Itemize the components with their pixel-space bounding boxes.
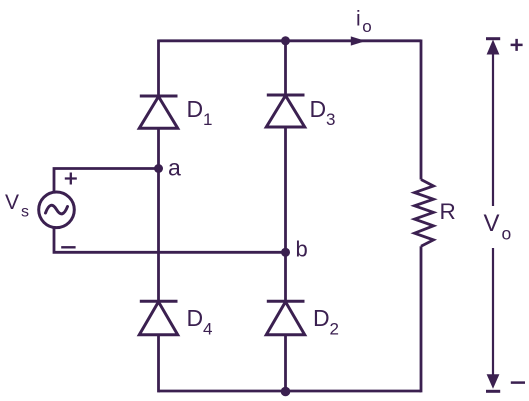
- wire left branch lower (D4 to bottom rail): [157, 335, 160, 393]
- node bottom junction: [281, 387, 291, 397]
- svg-text:D: D: [187, 305, 204, 331]
- Vo minus sign: [511, 381, 525, 384]
- wire middle branch lower (D2 to bottom rail): [284, 335, 287, 391]
- diode D2 triangle: [266, 302, 304, 335]
- Vo arrow bottom bar: [486, 390, 500, 393]
- source minus sign: [61, 246, 75, 248]
- svg-text:3: 3: [326, 110, 335, 129]
- current arrow io: [351, 36, 366, 45]
- wire left branch middle (D1 to D4 through node a): [157, 128, 160, 301]
- wire top rail: [159, 39, 422, 42]
- svg-text:D: D: [187, 96, 204, 122]
- wire source top to node a: [54, 169, 159, 193]
- source Vs circle: [39, 192, 75, 228]
- svg-text:V: V: [484, 210, 500, 237]
- svg-text:o: o: [362, 17, 371, 36]
- resistor R zigzag: [415, 180, 434, 247]
- svg-text:b: b: [296, 237, 308, 262]
- diode D3 triangle: [266, 96, 304, 128]
- svg-text:2: 2: [330, 320, 339, 339]
- Vo plus sign: [511, 39, 523, 51]
- Vo arrow bottom head: [487, 374, 500, 389]
- svg-text:o: o: [502, 224, 512, 244]
- svg-text:a: a: [168, 155, 181, 181]
- diode D3 cathode bar: [267, 94, 305, 97]
- wire middle branch mid (D3 to D2 through node b): [284, 127, 287, 301]
- svg-text:1: 1: [203, 110, 212, 129]
- wire bottom rail: [159, 390, 422, 393]
- svg-text:R: R: [440, 199, 456, 224]
- source Vs sine symbol: [46, 205, 68, 214]
- svg-text:D: D: [313, 305, 330, 331]
- Vo arrow lower line: [492, 248, 494, 375]
- Vo arrow top head: [487, 40, 500, 55]
- svg-text:s: s: [21, 204, 29, 221]
- svg-text:V: V: [5, 191, 19, 214]
- node top junction: [281, 36, 290, 45]
- wire right branch upper (top rail to resistor): [420, 40, 423, 180]
- Vo arrow upper line: [492, 54, 494, 206]
- wire left branch upper (top rail to D1): [157, 40, 160, 97]
- node a: [154, 164, 163, 173]
- diode D4 cathode bar: [140, 300, 178, 303]
- wire right branch lower (resistor to bottom rail): [420, 246, 423, 392]
- diode D4 triangle: [139, 302, 177, 335]
- svg-text:D: D: [310, 96, 327, 122]
- Vo arrow top bar: [486, 37, 500, 40]
- source plus sign: [65, 173, 77, 185]
- node b: [281, 248, 290, 257]
- diode D2 cathode bar: [267, 300, 305, 303]
- svg-text:4: 4: [203, 320, 212, 339]
- wire source bottom to node b (crosses left branch, no junction): [54, 228, 286, 253]
- diode D1 cathode bar: [140, 95, 178, 98]
- svg-text:i: i: [356, 8, 361, 31]
- diode D1 triangle: [139, 97, 177, 129]
- wire middle branch upper (top rail to D3): [284, 41, 287, 95]
